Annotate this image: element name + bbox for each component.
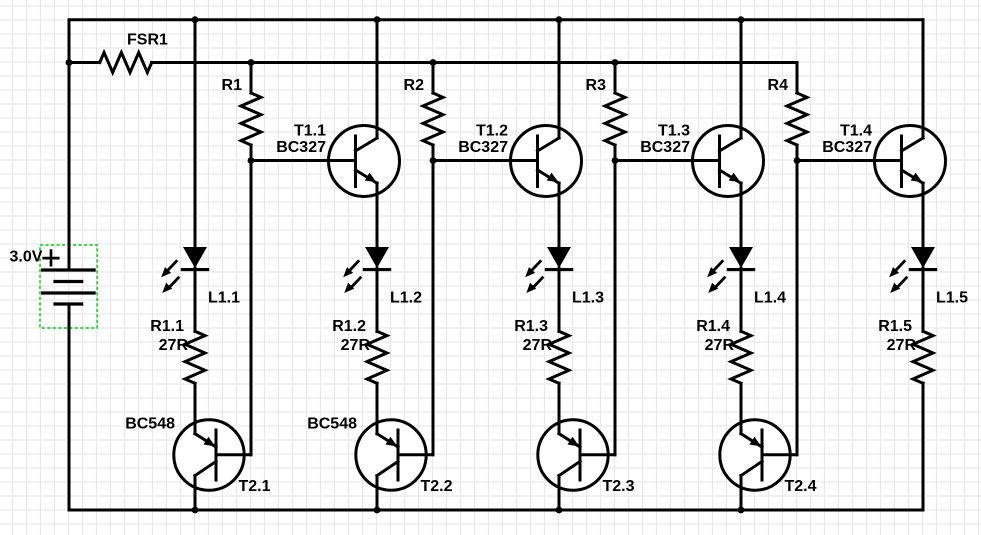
svg-text:T1.2: T1.2	[476, 123, 508, 140]
svg-text:T2.2: T2.2	[421, 478, 453, 495]
svg-text:T1.4: T1.4	[840, 123, 872, 140]
svg-text:R1.4: R1.4	[696, 318, 730, 335]
svg-text:T2.3: T2.3	[603, 478, 635, 495]
svg-text:BC327: BC327	[458, 139, 508, 156]
svg-text:BC548: BC548	[307, 415, 357, 432]
svg-text:T1.1: T1.1	[294, 123, 326, 140]
svg-text:R1.3: R1.3	[514, 318, 548, 335]
svg-text:R1.1: R1.1	[150, 318, 184, 335]
svg-text:27R: 27R	[523, 337, 553, 354]
svg-text:L1.4: L1.4	[754, 290, 786, 307]
svg-text:R4: R4	[768, 77, 789, 94]
svg-text:FSR1: FSR1	[127, 32, 168, 49]
svg-text:27R: 27R	[887, 337, 917, 354]
svg-text:R2: R2	[404, 77, 425, 94]
svg-text:L1.5: L1.5	[936, 290, 968, 307]
svg-text:T2.1: T2.1	[239, 478, 271, 495]
svg-text:R1.5: R1.5	[878, 318, 912, 335]
svg-text:3.0V: 3.0V	[10, 249, 43, 266]
svg-text:L1.2: L1.2	[390, 290, 422, 307]
svg-text:BC327: BC327	[640, 139, 690, 156]
svg-text:L1.3: L1.3	[572, 290, 604, 307]
svg-text:BC327: BC327	[276, 139, 326, 156]
svg-text:BC327: BC327	[822, 139, 872, 156]
svg-text:L1.1: L1.1	[208, 290, 240, 307]
svg-text:BC548: BC548	[125, 415, 175, 432]
svg-text:27R: 27R	[705, 337, 735, 354]
svg-text:R1.2: R1.2	[332, 318, 366, 335]
svg-text:T1.3: T1.3	[658, 123, 690, 140]
svg-text:R1: R1	[222, 77, 243, 94]
svg-text:27R: 27R	[341, 337, 371, 354]
svg-text:27R: 27R	[159, 337, 189, 354]
svg-text:T2.4: T2.4	[785, 478, 817, 495]
svg-text:R3: R3	[586, 77, 607, 94]
